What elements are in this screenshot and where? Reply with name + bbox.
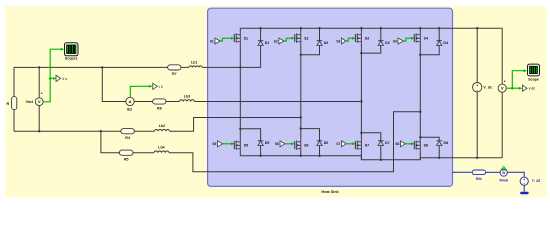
gate signal tag S7 [336, 141, 346, 147]
gate signal tag S2 [274, 38, 284, 44]
transistor S3 [355, 28, 369, 44]
wire phase leg 4 [169, 112, 420, 172]
svg-text:T: 25: T: 25 [532, 179, 540, 183]
wire [239, 67, 241, 128]
wire jog [301, 129, 320, 141]
thermal wire [523, 185, 525, 191]
heat sink [208, 8, 453, 186]
transistor S8 [414, 137, 428, 151]
node junction [101, 66, 103, 68]
svg-text:R7: R7 [172, 72, 177, 76]
node junction [300, 27, 302, 29]
transistor S7 [355, 133, 369, 151]
inductor Lb3 [179, 94, 194, 101]
node junction [300, 127, 302, 129]
signal arrow [231, 37, 234, 40]
diode D4 [437, 28, 449, 45]
node junction [100, 130, 102, 132]
node junction [360, 100, 362, 102]
svg-text:S2: S2 [274, 39, 278, 43]
svg-text:S5: S5 [244, 144, 248, 148]
node junction [419, 136, 421, 138]
signal label tag V s [56, 75, 67, 81]
diode D7 [378, 141, 390, 146]
svg-text:D8: D8 [443, 141, 448, 145]
svg-text:R8: R8 [157, 106, 162, 110]
svg-text:R5: R5 [124, 158, 129, 162]
resistor R [7, 97, 17, 110]
signal wire [346, 143, 354, 145]
svg-text:S8: S8 [395, 142, 399, 146]
svg-text:S3: S3 [336, 39, 340, 43]
node junction [239, 66, 241, 68]
inductor Lb1 [189, 60, 202, 67]
gate signal tag S4 [393, 38, 404, 44]
wire [133, 152, 154, 154]
svg-text:Lb4: Lb4 [158, 145, 164, 149]
wire [102, 67, 126, 101]
svg-text:−: − [523, 182, 525, 186]
wire [301, 45, 320, 54]
node junction [476, 157, 478, 159]
svg-text:R4: R4 [125, 136, 130, 140]
diode D3 [378, 28, 390, 45]
node junction [318, 27, 320, 29]
svg-text:S5: S5 [212, 142, 216, 146]
svg-text:S3: S3 [365, 37, 369, 41]
wire phase leg 3 [194, 101, 361, 103]
signal arrow [292, 142, 295, 145]
svg-text:D7: D7 [385, 141, 390, 145]
signal wire [405, 143, 413, 145]
wire [319, 146, 321, 156]
signal arrow [519, 87, 522, 90]
node junction [360, 52, 362, 54]
wire [419, 151, 421, 160]
svg-text:S1: S1 [244, 37, 248, 41]
svg-text:D5: D5 [265, 141, 270, 145]
diode D2 [317, 28, 329, 45]
svg-text:S7: S7 [365, 144, 369, 148]
wire [420, 45, 439, 54]
svg-text:+: + [41, 92, 43, 96]
scope Scope1 [65, 43, 79, 61]
node junction [476, 27, 478, 29]
node junction [300, 116, 302, 118]
svg-text:S2: S2 [304, 37, 308, 41]
diode D5 [258, 141, 270, 146]
svg-text:V s: V s [62, 77, 67, 81]
thermal ground [520, 192, 528, 194]
resistor R7 [168, 65, 181, 76]
wire [38, 67, 40, 98]
thermal resistor Rth [472, 170, 485, 181]
signal arrow [411, 37, 414, 40]
signal arrow [524, 69, 527, 72]
svg-text:D2: D2 [324, 41, 329, 45]
svg-text:S7: S7 [336, 142, 340, 146]
node junction [300, 155, 302, 157]
signal wire [404, 38, 414, 41]
svg-text:Heat Sink: Heat Sink [321, 190, 339, 194]
wire jog [240, 129, 260, 141]
signal junction [511, 87, 514, 90]
signal wire [50, 77, 52, 79]
gate signal tag S8 [395, 141, 405, 147]
svg-text:v dc: v dc [529, 87, 536, 91]
signal arrow [61, 48, 64, 51]
signal arrow [53, 77, 56, 80]
svg-text:Scope1: Scope1 [65, 57, 78, 61]
node junction [438, 157, 440, 159]
svg-text:A: A [129, 99, 132, 104]
signal arrow [231, 142, 234, 145]
wire [360, 151, 362, 160]
gate signal tag S6 [275, 141, 285, 147]
wire [360, 44, 362, 133]
signal wire [285, 143, 294, 145]
svg-text:D1: D1 [265, 41, 270, 45]
signal label tag v dc [522, 85, 535, 91]
svg-text:V_dc: V_dc [483, 86, 492, 90]
node junction [380, 159, 382, 161]
wire [476, 92, 478, 158]
wire [380, 146, 382, 160]
svg-text:V: V [38, 99, 41, 104]
svg-text:S4: S4 [424, 37, 428, 41]
signal label tag i 2 [153, 83, 163, 89]
gate signal tag S3 [336, 38, 346, 44]
svg-text:Wm6: Wm6 [499, 178, 508, 182]
node junction [239, 128, 241, 130]
wire [181, 66, 189, 68]
signal junction [49, 77, 52, 80]
svg-text:S4: S4 [393, 39, 397, 43]
wire [501, 92, 503, 158]
wire [38, 106, 40, 132]
svg-text:S8: S8 [424, 144, 428, 148]
voltmeter Vm4 [26, 92, 43, 106]
transistor S5 [234, 129, 248, 151]
svg-text:D6: D6 [324, 141, 329, 145]
wire [260, 45, 262, 67]
wire [501, 28, 503, 84]
wire [134, 130, 154, 132]
wire jog [420, 137, 439, 141]
node junction [38, 130, 40, 132]
wire phase leg 1 [202, 66, 260, 68]
signal wire [43, 49, 61, 102]
resistor R8 [153, 99, 166, 110]
resistor R5 [119, 150, 133, 161]
node junction [360, 27, 362, 29]
diode D6 [317, 141, 329, 146]
transistor S4 [414, 28, 428, 44]
signal arrow [292, 37, 295, 40]
voltage source V_dc [473, 83, 492, 93]
wire [134, 101, 152, 103]
scope Scope [528, 64, 540, 82]
svg-text:+: + [504, 79, 506, 83]
voltmeter Vm5 [498, 79, 506, 92]
node junction [438, 27, 440, 29]
svg-text:Lb1: Lb1 [191, 60, 197, 64]
wire dc+ bus [240, 27, 502, 29]
wire [361, 45, 380, 53]
thermal wire [453, 171, 473, 173]
svg-text:S6: S6 [304, 144, 308, 148]
svg-text:Ib2: Ib2 [127, 108, 132, 112]
wire [101, 131, 120, 153]
signal wire [284, 38, 294, 41]
signal wire [223, 143, 234, 145]
wire [419, 44, 421, 138]
svg-text:Rth: Rth [476, 177, 482, 181]
signal arrow [149, 85, 152, 88]
node junction [419, 54, 421, 56]
ammeter Ib2 [126, 97, 134, 111]
schematic canvas [5, 6, 547, 198]
wire [300, 151, 302, 156]
inductor Lb4 [154, 145, 169, 152]
wire [166, 101, 179, 103]
wire [476, 28, 478, 82]
wire [14, 66, 168, 68]
wire [13, 67, 15, 96]
svg-text:Lb2: Lb2 [159, 124, 165, 128]
signal arrow [411, 142, 414, 145]
temperature source T 25 [520, 177, 540, 186]
wire [300, 44, 302, 129]
signal arrow [352, 37, 355, 40]
thermal wire [507, 172, 524, 177]
wire dc- bus [240, 156, 502, 160]
wire jog [361, 133, 380, 141]
wire phase leg 2 [170, 118, 302, 132]
svg-text:Scope: Scope [528, 78, 539, 82]
gate signal tag S1 [210, 38, 220, 44]
node junction [419, 111, 421, 113]
svg-text:Vm4: Vm4 [26, 100, 34, 104]
node junction [38, 66, 40, 68]
svg-text:V: V [501, 86, 504, 91]
svg-text:S1: S1 [210, 39, 214, 43]
signal wire [346, 38, 354, 41]
node junction [318, 155, 320, 157]
svg-text:+: + [476, 83, 478, 87]
node junction [259, 27, 261, 29]
transistor S6 [295, 129, 309, 151]
wire [13, 110, 15, 132]
svg-text:R: R [7, 102, 10, 106]
svg-text:D4: D4 [443, 41, 448, 45]
diode D1 [258, 28, 270, 45]
svg-text:S6: S6 [275, 142, 279, 146]
signal wire [512, 71, 524, 89]
node junction [300, 54, 302, 56]
wire [239, 44, 241, 68]
heat flow meter Wm6 [499, 166, 508, 182]
svg-text:Lb3: Lb3 [184, 94, 190, 98]
diode D8 [437, 141, 449, 146]
signal wire [220, 38, 233, 41]
svg-text:i 2: i 2 [159, 85, 163, 89]
signal wire [506, 87, 512, 89]
node junction [360, 132, 362, 134]
wire [14, 130, 121, 132]
signal wire [512, 87, 519, 89]
transistor S2 [295, 28, 309, 44]
wire [438, 146, 440, 158]
thermal wire [486, 171, 501, 173]
resistor R4 [121, 129, 135, 140]
wire [260, 146, 262, 156]
node junction [380, 27, 382, 29]
node junction [419, 27, 421, 29]
svg-text:D3: D3 [385, 41, 390, 45]
inductor Lb2 [154, 124, 169, 131]
transistor S1 [234, 28, 248, 44]
signal wire [130, 86, 149, 97]
wire [239, 151, 241, 156]
signal arrow [352, 142, 355, 145]
node junction [259, 155, 261, 157]
gate signal tag S5 [212, 141, 222, 147]
